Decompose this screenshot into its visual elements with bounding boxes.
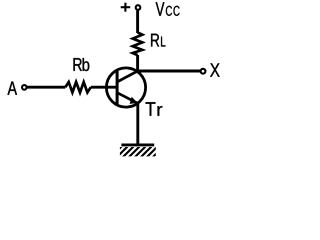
- terminal VCC: [136, 5, 141, 10]
- label glyph RL-L: [161, 37, 165, 47]
- terminal A: [22, 85, 27, 90]
- transistor Tr collector lead: [117, 71, 138, 82]
- label glyph X: [210, 63, 220, 76]
- transistor Tr base bar: [116, 70, 119, 105]
- label glyph r: [158, 106, 163, 116]
- label glyph C2: [174, 6, 180, 16]
- resistor RL: [133, 33, 143, 56]
- transistor Tr emitter lead: [117, 93, 138, 104]
- label glyph T: [146, 102, 156, 116]
- label glyph Rb-b: [83, 58, 90, 71]
- transistor Tr circle: [106, 68, 145, 107]
- wire collector node to X terminal: [138, 70, 200, 73]
- plus sign (supply polarity): [121, 3, 131, 12]
- ground hatching: [111, 147, 164, 158]
- label glyph A: [8, 82, 18, 95]
- wire Rb to base: [91, 86, 117, 89]
- transistor Tr emitter arrowhead: [130, 97, 138, 104]
- wire A to Rb: [27, 86, 65, 89]
- wire RL to collector node: [136, 55, 139, 71]
- label glyph V: [156, 2, 165, 15]
- label glyph C1: [166, 6, 172, 16]
- ground bar: [121, 143, 154, 146]
- label glyph RL-R: [151, 34, 159, 47]
- terminal X: [201, 69, 206, 74]
- wire emitter to ground: [136, 103, 139, 144]
- label glyph Rb-R: [74, 58, 82, 71]
- resistor Rb: [65, 82, 91, 93]
- wire VCC terminal to RL: [136, 10, 139, 33]
